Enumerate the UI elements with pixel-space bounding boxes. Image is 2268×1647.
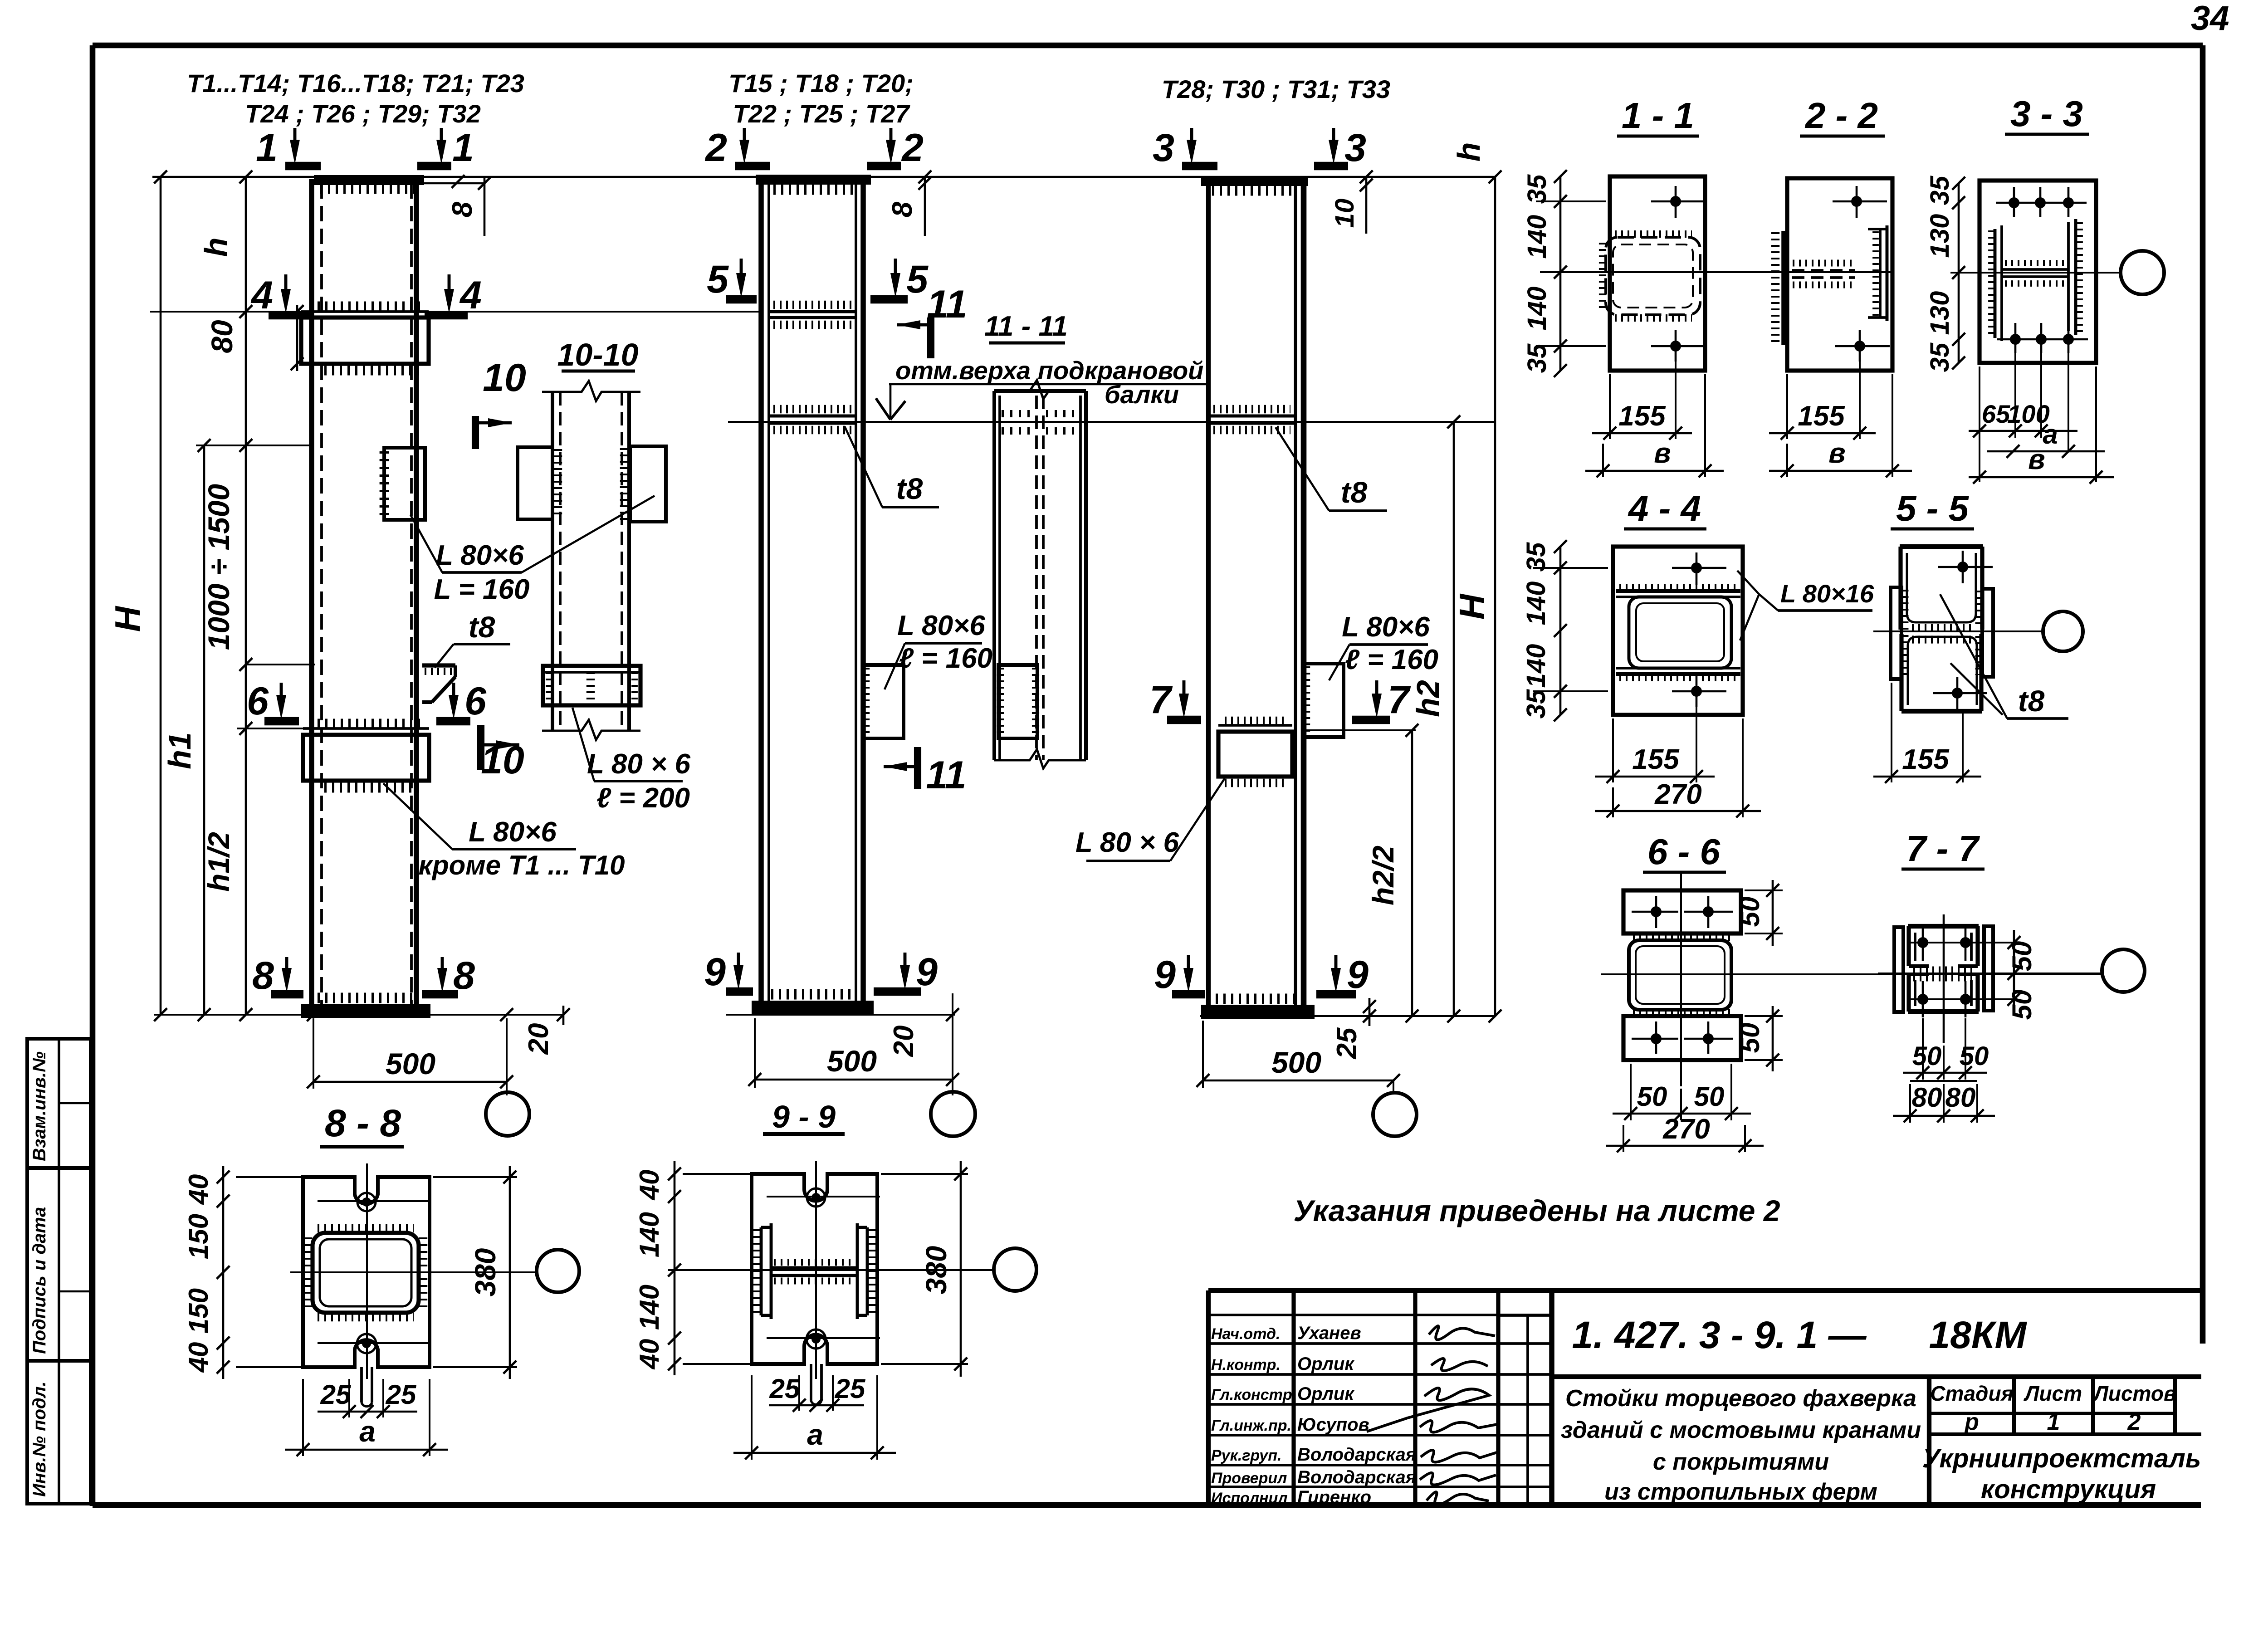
section 2-2 dim 155 [1786, 374, 1788, 439]
section 3-3 grid circle [2121, 251, 2164, 294]
section 7-7 upper channel [1908, 924, 1979, 929]
svg-text:140: 140 [1521, 644, 1551, 688]
dimension 500 column 2 [755, 1079, 953, 1081]
section mark 6 left [280, 683, 283, 703]
section 6-6 bottom bolts [1655, 1021, 1657, 1054]
dimension line H h column 3 [1494, 177, 1496, 1016]
svg-text:t8: t8 [1341, 475, 1368, 509]
section 6-6 centre vertical line [1680, 873, 1682, 1086]
margin box Взам.инв.№ [27, 1039, 91, 1168]
svg-text:10: 10 [483, 356, 526, 400]
dimension line h2 [1453, 422, 1455, 1016]
section 5-5 left cover strip t8 [1891, 587, 1901, 679]
dimension line h / 1000÷1500 / h1/2 [245, 177, 247, 1015]
svg-text:20: 20 [523, 1023, 554, 1055]
column 2 stiffener mid [769, 310, 856, 313]
section 9-9 dim 380 [881, 1173, 968, 1175]
svg-text:140: 140 [1521, 582, 1551, 626]
column 1 left flange dashed inner line [320, 183, 323, 1006]
section 7-7 dims 80 80 [1909, 1084, 1911, 1123]
svg-text:Н.контр.: Н.контр. [1211, 1356, 1281, 1373]
grid circle column 3 [1373, 1093, 1417, 1136]
10-10 bottom clamp angles L80x6 l=200 [543, 666, 640, 705]
svg-text:270: 270 [1662, 1114, 1710, 1145]
svg-text:155: 155 [1632, 744, 1680, 775]
section 1-1 bottom bolt [1675, 330, 1677, 362]
section 8-8 plate outline with notches [303, 1177, 430, 1367]
column 2 left flange [758, 179, 764, 1002]
section 5-5 grid circle [2043, 611, 2083, 651]
svg-text:Указания приведены на листе: Указания приведены на листе 2 [1293, 1194, 1780, 1227]
section mark 1 left [293, 128, 297, 148]
column 1 left flange [309, 179, 314, 1006]
column 1 cap weld row [320, 184, 415, 194]
svg-text:ℓ = 200: ℓ = 200 [596, 782, 690, 814]
section 3-3 top bolts [2013, 187, 2015, 217]
section 7-7 grid circle [2102, 949, 2145, 992]
section 8-8 left dim chain [222, 1166, 225, 1379]
section 5-5 upper channel [1900, 544, 1983, 549]
svg-text:50: 50 [2007, 990, 2037, 1020]
section 6-6 centre line horizontal [1601, 973, 2102, 975]
column 1 base plate [303, 1006, 429, 1016]
10-10 top break line [542, 381, 640, 401]
title block stadia table lines [1929, 1412, 2175, 1415]
section mark 2 left [743, 128, 746, 148]
section 4-4 flange plates and tube [1616, 589, 1740, 593]
11-11 top cap [994, 389, 1086, 393]
svg-text:конструкция: конструкция [1981, 1475, 2156, 1504]
svg-text:8 - 8: 8 - 8 [325, 1102, 401, 1144]
svg-text:h2/2: h2/2 [1366, 845, 1400, 905]
svg-text:7 - 7: 7 - 7 [1906, 828, 1980, 869]
svg-text:140: 140 [1522, 287, 1552, 331]
svg-text:Уханев: Уханев [1297, 1323, 1361, 1343]
svg-text:20: 20 [888, 1026, 919, 1057]
grid circle column 2 [931, 1092, 975, 1136]
section 3-3 dim в [1969, 476, 2114, 479]
column 3 base weld row [1216, 994, 1297, 1004]
section mark 4 left [284, 274, 288, 297]
svg-text:35: 35 [1522, 174, 1552, 204]
svg-text:в: в [1828, 438, 1845, 469]
section 2-2 bottom bolt [1859, 330, 1861, 362]
section 1-1 dim 155 [1609, 374, 1611, 439]
svg-text:11 - 11: 11 - 11 [984, 311, 1068, 342]
svg-text:150: 150 [183, 1214, 214, 1259]
10-10 left side plate [518, 447, 552, 519]
section 8-8 dim 380 [433, 1176, 517, 1178]
svg-text:18КМ: 18КМ [1929, 1314, 2027, 1356]
section 6-6 top plate [1623, 890, 1741, 933]
svg-text:9: 9 [1154, 953, 1176, 997]
section mark 3 right [1332, 128, 1335, 148]
section 6-6 weld row bottom [1633, 1009, 1733, 1017]
svg-text:10: 10 [481, 738, 524, 782]
svg-text:Исполнил: Исполнил [1211, 1490, 1288, 1507]
title block outer top line [1208, 1288, 2201, 1293]
svg-text:L 80 × 6: L 80 × 6 [1075, 827, 1179, 858]
svg-text:155: 155 [1902, 744, 1950, 775]
svg-text:Орлик: Орлик [1297, 1354, 1354, 1374]
dimension 500 column 3 [1203, 1080, 1393, 1082]
section 3-3 plate [1980, 181, 2096, 363]
svg-text:L 80×6: L 80×6 [436, 540, 524, 571]
svg-text:40: 40 [634, 1339, 665, 1370]
section mark 9 right [904, 953, 907, 973]
svg-text:Взам.инв.№: Взам.инв.№ [29, 1051, 49, 1161]
section 9-9 centre lines [815, 1161, 817, 1379]
svg-text:Стойки торцевого фахверка: Стойки торцевого фахверка [1565, 1385, 1916, 1412]
section 1-1 centre line [1540, 271, 1894, 273]
section 7-7 dims 50 50 right [2013, 930, 2015, 1012]
svg-text:80: 80 [1912, 1082, 1942, 1113]
svg-text:t8: t8 [896, 472, 923, 505]
section 9-9 grid circle [994, 1248, 1036, 1291]
title block verticals [1206, 1290, 1211, 1505]
section 6-6 dim 50 bottom [1745, 1015, 1783, 1017]
column 3 right edge pair [1294, 184, 1297, 1007]
section 1-1 dim chain labels [1559, 176, 1562, 371]
svg-text:р: р [1964, 1409, 1979, 1435]
section 4-4 dim chain [1559, 547, 1562, 715]
dimension 80 line [296, 305, 298, 371]
title block row lines left table [1208, 1314, 1552, 1316]
section mark 11 bottom near column 2 [914, 747, 921, 789]
section mark 11 top near column 2 [927, 318, 934, 358]
section 5-5 top bolt [1962, 551, 1964, 583]
svg-text:2: 2 [901, 126, 924, 170]
section 8-8 top bolt [362, 1197, 371, 1207]
svg-text:Укрниипроектсталь: Укрниипроектсталь [1922, 1444, 2201, 1473]
svg-text:1000 ÷ 1500: 1000 ÷ 1500 [202, 484, 235, 650]
svg-text:а: а [359, 1415, 376, 1448]
svg-text:зданий с мостовыми кранами: зданий с мостовыми кранами [1561, 1417, 1921, 1443]
svg-text:в: в [2028, 444, 2045, 475]
svg-text:11: 11 [927, 283, 967, 326]
dimension 8 column 1 [484, 177, 486, 236]
column 2 base plate [753, 1002, 872, 1014]
leader to column 1 angle plate [411, 515, 442, 572]
level line 1000-1500 top [196, 445, 313, 446]
title signatures scribbles [1429, 1326, 1495, 1339]
svg-text:ℓ = 160: ℓ = 160 [1345, 644, 1438, 675]
svg-text:кроме Т1 ... Т10: кроме Т1 ... Т10 [419, 850, 625, 880]
section 7-7 left cover strip [1894, 927, 1903, 1012]
svg-text:40: 40 [183, 1174, 214, 1205]
section mark 7 left [1183, 680, 1186, 702]
note leader arrow [890, 384, 892, 418]
section 1-1 tube dashed with welds [1606, 237, 1700, 315]
svg-text:L 80 × 6: L 80 × 6 [587, 748, 691, 780]
svg-text:t8: t8 [469, 610, 495, 644]
column 3 base plate [1203, 1007, 1313, 1017]
section 9-9 welded H member [760, 1227, 763, 1315]
leader to clamp [572, 708, 594, 781]
section 2-2 inner tee dashes [1792, 269, 1855, 272]
11-11 member edge lines [992, 391, 996, 760]
column 2 angle plate L80x6 right side [864, 665, 904, 738]
section mark 2 right [890, 128, 893, 148]
section mark 9 left column 3 [1187, 955, 1190, 976]
svg-text:Т24 ; Т26 ; Т29; Т32: Т24 ; Т26 ; Т29; Т32 [245, 99, 481, 128]
section 7-7 centre line to circle [1878, 973, 2101, 974]
svg-text:Т1...Т14; Т16...Т18; Т21; Т23: Т1...Т14; Т16...Т18; Т21; Т23 [187, 69, 524, 98]
section mark 6 right [452, 683, 455, 703]
margin box Инв.№ подл. [27, 1361, 91, 1504]
10-10 column edge lines [551, 392, 554, 731]
section 1-1 dim в [1704, 374, 1706, 477]
section 4-4 dim 155 [1612, 718, 1614, 782]
section 2-2 plate [1787, 178, 1892, 371]
svg-text:80: 80 [205, 320, 239, 353]
svg-text:Н: Н [1452, 593, 1492, 620]
dimension 8 column 2 [924, 177, 926, 236]
svg-text:2 - 2: 2 - 2 [1804, 95, 1878, 136]
section 8-8 centre lines [366, 1163, 368, 1379]
section 5-5 bottom bolt [1956, 677, 1959, 709]
section 4-4 plate [1613, 547, 1743, 715]
column 1 right flange [414, 179, 419, 1006]
section 5-5 lower channel [1901, 709, 1982, 714]
svg-text:Гл.констр.: Гл.констр. [1211, 1386, 1296, 1403]
svg-text:h2: h2 [1410, 680, 1446, 717]
level line top of corbel h [150, 311, 761, 313]
section 3-3 bottom bolts [2014, 323, 2017, 353]
column 1 lower corbel [303, 735, 429, 781]
svg-text:380: 380 [469, 1248, 502, 1297]
svg-text:L 80×6: L 80×6 [1342, 611, 1430, 643]
svg-text:Подпись и дата: Подпись и дата [29, 1207, 49, 1354]
svg-text:Листов: Листов [2092, 1382, 2176, 1405]
section mark 4 right [448, 274, 451, 297]
svg-text:3 - 3: 3 - 3 [2010, 93, 2083, 134]
svg-text:9: 9 [1347, 953, 1369, 997]
svg-text:в: в [1654, 438, 1671, 469]
svg-text:25: 25 [835, 1373, 866, 1404]
level line h1/2 top [237, 728, 304, 729]
column 1 angle plate L80x6 right side [384, 448, 425, 520]
svg-text:500: 500 [1271, 1046, 1321, 1079]
svg-text:25: 25 [769, 1373, 801, 1404]
section 8-8 dim a [302, 1379, 304, 1456]
svg-text:4: 4 [459, 274, 482, 317]
dimension 500 column 1 [313, 1081, 507, 1083]
column 2 right flange [855, 183, 857, 1002]
section mark 8 right [441, 957, 444, 976]
svg-text:8: 8 [447, 201, 478, 217]
column 2 cap weld row [773, 185, 853, 195]
svg-text:10: 10 [1330, 199, 1359, 228]
svg-text:L 80×6: L 80×6 [469, 816, 557, 848]
svg-text:35: 35 [1521, 542, 1551, 572]
section 7-7 bolts [1922, 924, 1924, 961]
svg-text:Рук.груп.: Рук.груп. [1211, 1447, 1281, 1464]
svg-text:5: 5 [906, 258, 929, 301]
svg-text:6 - 6: 6 - 6 [1647, 831, 1721, 872]
section 5-5 centre line to circle [1873, 630, 2042, 632]
svg-text:50: 50 [1735, 897, 1765, 927]
section 8-8 bottom bolt and strip [362, 1339, 371, 1348]
section mark 9 right column 3 [1334, 955, 1338, 976]
svg-text:L = 160: L = 160 [434, 574, 530, 605]
svg-text:11: 11 [926, 753, 966, 797]
section 6-6 dim 50 top [1745, 889, 1783, 891]
svg-text:7: 7 [1388, 678, 1411, 722]
section mark 5 left [740, 259, 743, 281]
svg-text:t8: t8 [2018, 684, 2045, 718]
11-11 bottom break line [994, 749, 1086, 768]
svg-text:Лист: Лист [2024, 1382, 2082, 1405]
svg-text:Володарская: Володарская [1297, 1445, 1416, 1465]
section 7-7 dims 50 50 bottom [1922, 1018, 1924, 1080]
section 9-9 dims 25 25 [798, 1375, 800, 1411]
svg-text:2: 2 [2127, 1409, 2141, 1435]
svg-text:9 - 9: 9 - 9 [772, 1099, 836, 1134]
drawing frame border [93, 43, 2203, 49]
svg-text:Инв.№ подл.: Инв.№ подл. [29, 1381, 49, 1497]
svg-text:50: 50 [1735, 1023, 1765, 1053]
svg-text:1: 1 [452, 126, 474, 170]
svg-text:10-10: 10-10 [557, 337, 638, 372]
svg-text:Т22 ; Т25 ; Т27: Т22 ; Т25 ; Т27 [733, 99, 910, 128]
svg-text:L 80×16: L 80×16 [1780, 579, 1874, 608]
svg-text:35: 35 [1522, 343, 1552, 373]
svg-text:25: 25 [320, 1379, 352, 1410]
svg-text:270: 270 [1654, 779, 1701, 810]
svg-text:5: 5 [707, 258, 729, 301]
svg-text:155: 155 [1618, 401, 1666, 432]
10-10 bottom break line [542, 720, 640, 740]
svg-text:с покрытиями: с покрытиями [1653, 1449, 1829, 1475]
svg-text:Т15 ; Т18 ; Т20;: Т15 ; Т18 ; Т20; [728, 69, 914, 98]
section 8-8 dims 25 25 [348, 1379, 350, 1417]
svg-text:а: а [807, 1418, 823, 1451]
column 3 stiffener crane level [1208, 415, 1295, 418]
section mark 7 right [1375, 680, 1378, 702]
section 8-8 tube with weld hatch [313, 1233, 419, 1313]
svg-text:Орлик: Орлик [1297, 1384, 1354, 1404]
11-11 angle plate [998, 665, 1037, 738]
svg-text:40: 40 [183, 1342, 214, 1373]
svg-text:Т28; Т30 ; Т31; Т33: Т28; Т30 ; Т31; Т33 [1162, 75, 1390, 103]
dimension line H column 1 [160, 177, 162, 1015]
svg-text:9: 9 [704, 950, 726, 994]
svg-text:8: 8 [453, 954, 475, 997]
section 2-2 left angle strip welded [1781, 231, 1787, 345]
svg-text:130: 130 [1925, 214, 1955, 258]
dimension line h1 [203, 445, 205, 1015]
svg-text:1. 427. 3 - 9. 1 —: 1. 427. 3 - 9. 1 — [1572, 1314, 1867, 1356]
svg-text:40: 40 [634, 1170, 665, 1201]
section 4-4 top bolt [1696, 552, 1698, 585]
svg-text:140: 140 [634, 1212, 665, 1257]
svg-text:7: 7 [1149, 678, 1173, 722]
svg-text:140: 140 [634, 1285, 665, 1330]
svg-text:4: 4 [250, 274, 273, 317]
svg-text:80: 80 [1945, 1082, 1976, 1113]
section 2-2 dim в [1892, 374, 1893, 477]
section 9-9 dim a [751, 1375, 753, 1460]
level line 1000-1500 bottom [246, 664, 315, 665]
svg-text:из стропильных ферм: из стропильных ферм [1604, 1479, 1877, 1505]
svg-text:Проверил: Проверил [1211, 1470, 1287, 1487]
column 1 upper corbel [301, 318, 429, 364]
leader to lower corbel [383, 783, 452, 849]
svg-text:35: 35 [1925, 176, 1955, 205]
section 2-2 right tee [1879, 229, 1882, 318]
section mark 1 right [440, 128, 443, 148]
section mark 3 left [1190, 128, 1193, 148]
section 7-7 lower channel [1908, 1009, 1979, 1014]
svg-text:Стадия: Стадия [1930, 1382, 2013, 1405]
svg-text:4 - 4: 4 - 4 [1628, 488, 1701, 528]
svg-text:8: 8 [887, 201, 918, 217]
dimension 10 column 3 [1365, 177, 1368, 234]
11-11 weld marks at crane level [1002, 410, 1035, 417]
section 5-5 dim 155 [1891, 683, 1892, 782]
svg-text:Юсупов: Юсупов [1297, 1415, 1369, 1435]
svg-text:500: 500 [386, 1047, 435, 1080]
column 1 right flange dashed inner line [410, 183, 413, 1006]
base level dim line column 2 [726, 1014, 955, 1016]
section 6-6 bottom plate [1623, 1016, 1741, 1060]
section 7-7 centre vertical line [1943, 914, 1945, 1043]
svg-text:Володарская: Володарская [1297, 1467, 1416, 1487]
section 3-3 dims 65 100 a [2014, 353, 2016, 438]
svg-text:ℓ = 160: ℓ = 160 [899, 643, 992, 674]
section 7-7 right cover strip [1984, 926, 1993, 1011]
column 1 cap plate [316, 177, 422, 183]
svg-text:34: 34 [2191, 0, 2229, 38]
svg-text:130: 130 [1925, 291, 1955, 335]
column 3 cap plate [1203, 178, 1306, 184]
svg-text:h: h [1451, 142, 1486, 162]
section 6-6 dims 50 50 bottom [1630, 1064, 1632, 1120]
section 9-9 top bolt [811, 1193, 821, 1202]
section 5-5 right cover strip t8 [1982, 589, 1993, 677]
column 3 cap weld row [1212, 186, 1293, 196]
section mark 8 left [285, 957, 288, 976]
svg-text:50: 50 [2007, 941, 2037, 972]
svg-text:35: 35 [1925, 342, 1955, 372]
section 2-2 top bolt [1856, 186, 1858, 218]
svg-text:Н: Н [108, 606, 147, 632]
svg-text:35: 35 [1521, 689, 1551, 718]
column 3 angle plate right side [1304, 664, 1344, 737]
svg-text:500: 500 [827, 1044, 877, 1078]
svg-text:9: 9 [916, 950, 938, 994]
section 8-8 grid circle [537, 1250, 579, 1292]
t8 gusset bracket column 1 [422, 663, 455, 667]
section 4-4 bottom bolt [1696, 675, 1698, 707]
svg-text:50: 50 [1637, 1081, 1667, 1112]
section mark 10 bottom [477, 725, 484, 770]
svg-text:h: h [198, 238, 234, 257]
section 9-9 bottom bolt and strip [811, 1334, 821, 1344]
section 4-4 dim 270 [1742, 718, 1744, 817]
svg-text:50: 50 [1912, 1041, 1942, 1071]
section mark 9 left [737, 953, 740, 973]
svg-text:380: 380 [920, 1246, 953, 1295]
svg-text:5 - 5: 5 - 5 [1896, 488, 1970, 528]
grid circle column 1 [486, 1092, 529, 1136]
section 6-6 weld row top [1633, 933, 1733, 941]
section 1-1 plate [1610, 176, 1705, 371]
svg-text:Гиренко: Гиренко [1297, 1487, 1371, 1507]
svg-text:8: 8 [252, 954, 274, 997]
svg-text:Нач.отд.: Нач.отд. [1211, 1325, 1280, 1343]
